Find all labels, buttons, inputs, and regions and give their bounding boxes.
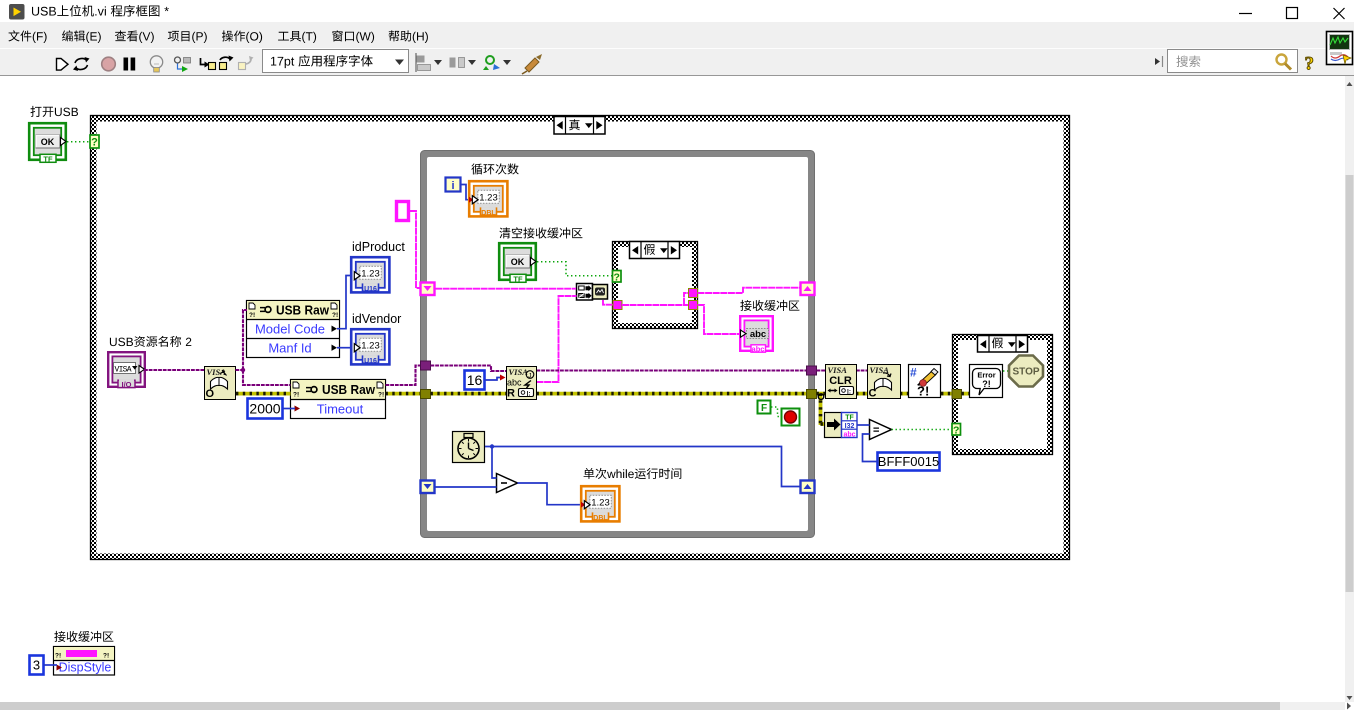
maximize button xyxy=(1287,8,1298,19)
svg-text:U16: U16 xyxy=(364,358,377,365)
tunnel while loop left (VISA) xyxy=(421,361,431,370)
label 接收缓冲区 (loop) xyxy=(740,300,799,311)
horizontal scrollbar thumb xyxy=(0,702,1280,710)
svg-text:J: J xyxy=(528,373,531,380)
wire VISA Read to right tunnel xyxy=(537,369,808,371)
right case selector terminal ? xyxy=(952,424,961,436)
label 循环次数 xyxy=(471,163,518,174)
wire VISA Open output with branches xyxy=(236,310,291,385)
VISA Clear node xyxy=(826,365,857,399)
svg-text:I/O: I/O xyxy=(121,380,131,389)
wire BFFF0015 to equals xyxy=(863,434,878,462)
svg-text:#: # xyxy=(910,366,917,380)
minimize button xyxy=(1239,13,1252,15)
string indicator 接收缓冲区 xyxy=(740,316,773,353)
wire property node 2 to while loop tunnel xyxy=(386,366,422,386)
svg-text:?!: ?! xyxy=(249,312,255,319)
case structure (outer, 真 case) border xyxy=(91,116,1070,560)
wire string constant to left shift register xyxy=(410,211,421,288)
svg-text:VISA: VISA xyxy=(509,367,529,377)
while loop border xyxy=(421,151,815,538)
wire left shift register to subtract xyxy=(435,486,497,488)
wire Manf Id to idVendor xyxy=(337,347,350,349)
VISA resource control USB资源名称 2 xyxy=(108,352,145,389)
wire boolean to inner case selector xyxy=(537,262,613,276)
wire F to loop condition xyxy=(771,407,782,417)
svg-text:16: 16 xyxy=(467,372,483,388)
svg-text:?: ? xyxy=(953,424,959,436)
svg-text:TF: TF xyxy=(513,274,523,283)
svg-text:=: = xyxy=(873,425,879,437)
svg-text:|:: |: xyxy=(847,389,851,396)
title bar xyxy=(0,0,1354,22)
tunnel while loop right (error) xyxy=(807,390,817,399)
simple error handler node xyxy=(909,365,941,398)
shift register left (string) xyxy=(421,283,435,296)
svg-text:1.23: 1.23 xyxy=(361,340,380,351)
numeric constant 16 xyxy=(465,371,485,390)
equals node xyxy=(870,420,892,440)
svg-text:1.23: 1.23 xyxy=(361,268,380,279)
svg-text:DBL: DBL xyxy=(481,210,496,217)
numeric indicator 循环次数 (DBL) xyxy=(469,181,507,217)
close button xyxy=(1334,8,1345,19)
resize objects dropdown (colored) xyxy=(486,56,494,64)
svg-text:i: i xyxy=(451,180,454,192)
svg-text:DispStyle: DispStyle xyxy=(59,661,112,675)
VISA Read node xyxy=(507,367,537,400)
svg-text:OK: OK xyxy=(511,257,525,267)
label 接收缓冲区 (bottom) xyxy=(54,631,113,642)
svg-text:Model Code: Model Code xyxy=(255,322,325,337)
LabVIEW app icon xyxy=(9,4,25,20)
wire 2000 to Timeout xyxy=(283,408,295,410)
concatenate strings node xyxy=(577,284,593,301)
type cast node xyxy=(825,413,842,438)
shift register left (i32 time) xyxy=(421,481,435,494)
wire tunnel to VISA Clear xyxy=(817,369,826,371)
label 打开USB xyxy=(31,106,79,117)
svg-text:?: ? xyxy=(613,271,619,283)
wire inner case to right shift register xyxy=(698,288,801,293)
svg-text:?!: ?! xyxy=(378,392,384,399)
wire type cast to equals xyxy=(857,424,870,426)
svg-text:?!: ?! xyxy=(332,312,338,319)
wire 16 to VISA Read byte count xyxy=(485,378,500,381)
VI icon (top right) xyxy=(1327,32,1353,65)
property node USB Raw (Model Code / Manf Id) xyxy=(247,301,340,358)
tunnel while loop right (VISA) xyxy=(807,366,817,375)
svg-text:abc: abc xyxy=(752,345,765,354)
numeric indicator 单次while运行时间 (DBL) xyxy=(581,486,619,522)
svg-text:TF: TF xyxy=(43,154,53,163)
menu bar background xyxy=(0,22,1354,48)
wire VISA control to VISA Open xyxy=(144,369,204,371)
search box xyxy=(1168,50,1298,73)
svg-text:?!: ?! xyxy=(982,379,991,389)
svg-text:VISA: VISA xyxy=(115,365,132,374)
tunnel while loop left (error) xyxy=(421,390,431,399)
svg-text:abc: abc xyxy=(507,378,522,388)
tunnel inner case right bottom (string) xyxy=(689,301,698,310)
error wire VISA Clear to VISA Close xyxy=(856,392,867,396)
run continuously button xyxy=(75,58,88,69)
case structure (right, 假 case) border xyxy=(953,335,1053,455)
run button xyxy=(57,59,69,71)
svg-text:?!: ?! xyxy=(55,653,61,660)
numeric indicator idProduct (U16) xyxy=(351,257,389,293)
error wire error handler to right case tunnel xyxy=(941,392,952,396)
tick count (ms) node xyxy=(453,432,485,463)
step out button (disabled) xyxy=(239,63,246,70)
empty string constant xyxy=(397,202,409,221)
step over button xyxy=(220,63,227,70)
svg-text:USB Raw: USB Raw xyxy=(322,383,375,397)
svg-text:|:: |: xyxy=(527,391,531,398)
STOP sign xyxy=(1009,356,1043,387)
step into button xyxy=(201,58,206,65)
VISA Close node xyxy=(868,365,901,399)
error wire VISA Close to error handler xyxy=(900,392,908,396)
wire error dialog to STOP xyxy=(1003,370,1010,372)
svg-text:Timeout: Timeout xyxy=(317,402,364,417)
svg-text:?!: ?! xyxy=(917,384,929,399)
wire concat output to inner case left tunnel xyxy=(603,300,613,305)
svg-text:BFFF0015: BFFF0015 xyxy=(878,454,939,469)
VISA Open node xyxy=(205,367,236,400)
pause button xyxy=(124,58,129,71)
shift register right (string) xyxy=(801,283,815,296)
reorder (clean up) button xyxy=(525,58,539,72)
error wire VISA Read to right tunnel xyxy=(537,392,808,396)
svg-text:?!: ?! xyxy=(293,392,299,399)
toolbar background xyxy=(0,48,1354,76)
iteration terminal i xyxy=(446,178,461,192)
wire equals to right case selector xyxy=(892,429,952,431)
error dialog icon xyxy=(970,365,1003,398)
label USB资源名称 2 xyxy=(110,336,191,347)
menu items xyxy=(8,30,46,43)
svg-text:idVendor: idVendor xyxy=(352,312,401,326)
svg-text:U16: U16 xyxy=(364,286,377,293)
boolean control 打开USB (OK button) xyxy=(29,123,66,163)
svg-text:I32: I32 xyxy=(845,423,855,430)
svg-text:VISA: VISA xyxy=(828,365,848,375)
error wire tunnel to error dialog xyxy=(962,392,971,396)
inner case selector label 假 xyxy=(630,242,680,259)
wire i to 循环次数 xyxy=(461,185,469,200)
abort button (disabled) xyxy=(102,57,116,71)
retain wire values button xyxy=(175,57,181,63)
horizontal scrollbar xyxy=(0,702,1345,710)
label 单次while运行时间 xyxy=(584,468,682,479)
inner case selector terminal ? xyxy=(613,271,622,283)
error wire VISA Open to property node xyxy=(236,392,291,396)
vertical scrollbar thumb xyxy=(1346,175,1354,592)
tunnel right case left (error) xyxy=(952,390,962,399)
svg-text:F: F xyxy=(761,403,767,414)
svg-text:abc: abc xyxy=(750,329,766,340)
wire shift register to concat input xyxy=(435,288,576,290)
property node 接收缓冲区 DispStyle xyxy=(54,647,115,676)
window title text xyxy=(32,5,169,17)
svg-text:OK: OK xyxy=(41,137,55,147)
tunnel inner case right top (string) xyxy=(689,289,698,298)
boolean constant F xyxy=(758,401,771,414)
wire VISA Clear to VISA Close xyxy=(856,369,867,371)
svg-text:1.23: 1.23 xyxy=(479,192,498,203)
shift register right (i32 time) xyxy=(801,481,815,494)
svg-text:abc: abc xyxy=(843,432,855,439)
wire clock to long loop line xyxy=(485,447,801,487)
search magnifier icon xyxy=(1277,55,1287,65)
error wire property node to loop tunnel xyxy=(386,392,422,396)
case selector label 真 xyxy=(554,117,605,135)
distribute objects dropdown xyxy=(450,58,456,68)
svg-text:STOP: STOP xyxy=(1012,367,1039,378)
numeric constant 3 xyxy=(30,656,44,675)
boolean control 清空接收缓冲区 (OK button) xyxy=(499,243,536,283)
svg-text:R: R xyxy=(507,388,515,400)
svg-text:C: C xyxy=(869,388,877,400)
subtract node xyxy=(497,474,518,493)
wire through inner case xyxy=(622,293,689,305)
vertical scrollbar xyxy=(1345,76,1354,702)
highlight execution (bulb) button xyxy=(150,56,162,68)
property node USB Raw (Timeout) xyxy=(291,380,386,419)
numeric constant 2000 xyxy=(248,399,283,419)
error wire right tunnel to VISA Clear with branch down xyxy=(817,392,826,396)
svg-text:idProduct: idProduct xyxy=(352,240,405,254)
numeric indicator idVendor (U16) xyxy=(351,329,389,365)
tunnel inner case left (string) xyxy=(613,301,622,310)
svg-text:2000: 2000 xyxy=(249,401,280,417)
case selector terminal ? xyxy=(90,135,99,148)
wire inner case to 接收缓冲区 indicator xyxy=(698,305,741,334)
wire tunnel to VISA Read xyxy=(431,366,507,372)
string constant BFFF0015 xyxy=(878,453,940,471)
error wire tunnel to VISA Read xyxy=(431,392,507,396)
font selector box xyxy=(263,50,409,73)
svg-text:O: O xyxy=(206,388,215,400)
svg-text:1.23: 1.23 xyxy=(591,497,610,508)
svg-text:?: ? xyxy=(1305,54,1315,75)
case structure (inner, 假 case) border xyxy=(613,242,698,329)
label 清空接收缓冲区 xyxy=(499,227,582,238)
svg-text:USB Raw: USB Raw xyxy=(276,304,329,318)
wire 3 to DispStyle xyxy=(44,664,58,666)
svg-text:3: 3 xyxy=(33,658,40,673)
align objects dropdown xyxy=(416,56,425,63)
loop condition terminal (stop) xyxy=(782,409,800,426)
search area marker xyxy=(1155,58,1160,65)
wire VISA read buffer up to concat input xyxy=(537,296,577,382)
right case selector label 假 xyxy=(978,336,1028,353)
svg-text:Manf Id: Manf Id xyxy=(268,341,311,356)
svg-text:?: ? xyxy=(91,137,98,149)
wire subtract to 单次while运行时间 xyxy=(518,483,582,505)
svg-text:?!: ?! xyxy=(103,653,109,660)
wire Model Code to idProduct xyxy=(337,276,350,329)
svg-text:CLR: CLR xyxy=(829,375,852,387)
svg-text:TF: TF xyxy=(845,415,854,422)
wire boolean 打开USB to case selector xyxy=(67,141,90,143)
svg-text:DBL: DBL xyxy=(593,515,608,522)
